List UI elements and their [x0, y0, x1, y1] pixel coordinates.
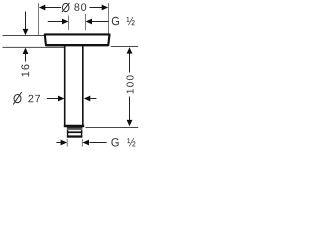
extension line left of top G 1/2 — [68, 16, 70, 31]
dimension line 100 upper segment — [129, 54, 131, 73]
dimension line 100 lower segment — [129, 97, 131, 121]
dimension tail 16 top — [25, 12, 27, 30]
extension line 100 bottom — [86, 127, 139, 129]
arrowhead bottom G 1/2 pointing left — [83, 140, 89, 146]
thread stripe gray — [67, 128, 82, 130]
dimension tail 16 bottom — [25, 54, 27, 62]
arrowhead dia 27 pointing left — [84, 96, 90, 102]
extension line 16 bottom — [3, 46, 65, 48]
arrowhead top G 1/2 pointing right — [62, 19, 68, 25]
dimension line dia 80 right segment — [90, 7, 103, 9]
thread stripe black bottom — [67, 135, 82, 137]
extension line left of dia 80 — [38, 3, 40, 36]
arrowhead dia 27 pointing right — [58, 96, 64, 102]
dimension line dia 80 left segment — [45, 7, 62, 9]
plate bottom edge thick — [46, 44, 109, 46]
arrowhead 16 pointing up — [23, 48, 29, 54]
arrowhead dia 80 pointing right — [102, 5, 108, 11]
leader tail left of top G 1/2 — [48, 21, 62, 23]
threaded end block — [68, 128, 82, 137]
label dia 27: digits — [28, 95, 33, 102]
pipe right wall — [82, 46, 84, 126]
arrowhead 100 pointing down — [127, 120, 133, 126]
label dia 80: digits — [74, 3, 79, 11]
extension line 100 top — [111, 46, 138, 48]
label 100 (rotated) — [126, 75, 133, 93]
pipe left wall — [64, 46, 66, 126]
label 16 (rotated) — [21, 64, 29, 76]
leader tail right of top G 1/2 — [92, 21, 109, 23]
arrowhead bottom G 1/2 pointing right — [61, 140, 67, 146]
extension line bottom G 1/2 left — [66, 139, 68, 147]
label top G 1/2 — [112, 17, 119, 25]
arrowhead 100 pointing up — [127, 47, 133, 53]
label dia 27: diameter symbol — [14, 95, 21, 103]
pipe bottom edge — [64, 125, 84, 127]
label dia 80: diameter symbol — [62, 3, 69, 11]
leader tail bottom G 1/2 left — [56, 142, 61, 144]
arrowhead dia 80 pointing left — [39, 5, 45, 11]
escutcheon plate — [45, 34, 110, 45]
leader tail bottom G 1/2 right — [90, 142, 107, 144]
extension line right of dia 80 — [108, 3, 110, 34]
ceiling extension line (16 top) — [3, 35, 45, 37]
leader tail dia 27 right — [91, 98, 97, 100]
extension line bottom G 1/2 right — [81, 139, 83, 147]
label bottom G 1/2 — [111, 138, 118, 146]
arrowhead top G 1/2 pointing left — [86, 19, 92, 25]
thread stripe black — [67, 131, 82, 133]
arrowhead 16 pointing down — [23, 29, 29, 35]
leader tail dia 27 left — [47, 98, 58, 100]
extension line right of top G 1/2 — [85, 14, 87, 30]
